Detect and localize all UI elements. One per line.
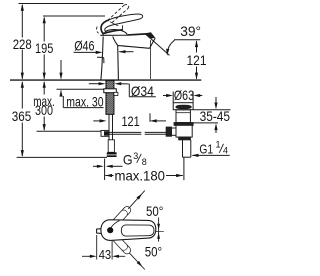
svg-text:43: 43 bbox=[99, 248, 111, 262]
Ø63 ext lines bbox=[172, 92, 174, 103]
dashed raised handle bbox=[97, 5, 129, 34]
deck top line bbox=[10, 79, 201, 81]
svg-text:50°: 50° bbox=[146, 203, 163, 219]
svg-text:max.180: max.180 bbox=[115, 167, 166, 183]
body step hook bbox=[97, 57, 104, 63]
deck bottom line bbox=[57, 88, 104, 90]
svg-text:365: 365 bbox=[12, 108, 32, 124]
svg-text:1: 1 bbox=[216, 140, 221, 150]
handle lever bbox=[101, 14, 143, 34]
dim 228 vertical line bbox=[21, 5, 23, 38]
svg-text:Ø63: Ø63 bbox=[174, 87, 194, 103]
max300 bottom ref line bbox=[37, 130, 104, 132]
clamp block bbox=[101, 130, 109, 136]
spout tip dark wedge bbox=[146, 32, 156, 39]
max. 30 label bbox=[61, 91, 104, 108]
35-45 dim bbox=[194, 97, 231, 133]
tailpipe bbox=[182, 140, 184, 157]
svg-text:300: 300 bbox=[35, 102, 53, 118]
dome bbox=[103, 30, 128, 35]
body column right edge bbox=[117, 45, 120, 79]
svg-text:39°: 39° bbox=[180, 23, 201, 39]
small pointer pair at supply bbox=[93, 159, 123, 180]
top ref line 195 bbox=[43, 15, 105, 17]
nub left bbox=[97, 229, 101, 234]
spout platform top bbox=[100, 34, 150, 35]
inner capsule bbox=[121, 225, 154, 236]
arrowheads for vertical dims bbox=[21, 4, 63, 157]
outer capsule bbox=[101, 220, 156, 241]
dim max.180 bbox=[105, 157, 184, 180]
svg-text:8: 8 bbox=[142, 157, 147, 167]
dim 365 vertical line bbox=[21, 82, 23, 109]
pop-up rod / supply bbox=[109, 114, 113, 152]
ball housing bbox=[171, 128, 176, 135]
svg-text:121: 121 bbox=[121, 113, 139, 129]
svg-text:121: 121 bbox=[187, 52, 207, 68]
G3/8 nut bbox=[107, 152, 117, 157]
svg-text:G: G bbox=[123, 152, 133, 168]
Ø63 dim bbox=[163, 95, 202, 97]
lower dim 121 bbox=[93, 113, 166, 122]
svg-text:3: 3 bbox=[133, 151, 138, 161]
faucet body bbox=[97, 30, 155, 80]
body upper bbox=[176, 110, 190, 123]
svg-text:35-45: 35-45 bbox=[200, 108, 231, 124]
dim 121 right bbox=[196, 41, 198, 79]
flange bbox=[173, 103, 193, 110]
svg-text:Ø34: Ø34 bbox=[131, 83, 154, 99]
outlet face bbox=[150, 38, 156, 48]
neck front curve bbox=[113, 36, 118, 45]
horizontal pop-up rod bbox=[104, 132, 166, 134]
svg-text:195: 195 bbox=[35, 40, 53, 56]
svg-text:G1: G1 bbox=[199, 142, 213, 156]
lock band bbox=[179, 137, 191, 140]
outlet drop extension line bbox=[149, 40, 151, 79]
365 bottom ref line bbox=[17, 156, 107, 158]
ghost handle lower bbox=[107, 230, 132, 256]
ghost handle upper bbox=[107, 205, 132, 231]
dim 195 vertical line bbox=[43, 18, 45, 42]
body mid bbox=[176, 125, 192, 137]
svg-text:max. 30: max. 30 bbox=[66, 93, 103, 109]
svg-text:Ø46: Ø46 bbox=[74, 38, 94, 54]
body column left edge bbox=[101, 37, 103, 80]
top ref line 228 bbox=[19, 3, 124, 5]
50 deg leaders bbox=[128, 191, 164, 270]
Ø34 label bbox=[89, 84, 156, 97]
spout underside bbox=[118, 45, 150, 48]
svg-text:228: 228 bbox=[13, 36, 32, 52]
clamp band bbox=[174, 123, 193, 126]
supply fitting bbox=[108, 140, 114, 153]
svg-text:50°: 50° bbox=[145, 244, 162, 260]
svg-text:4: 4 bbox=[223, 145, 228, 155]
dim max300 vertical line bbox=[43, 82, 45, 95]
pop-up waste assembly bbox=[166, 92, 193, 158]
dim max30 vertical line above deck bbox=[60, 60, 62, 79]
dim 43 bbox=[82, 235, 125, 260]
